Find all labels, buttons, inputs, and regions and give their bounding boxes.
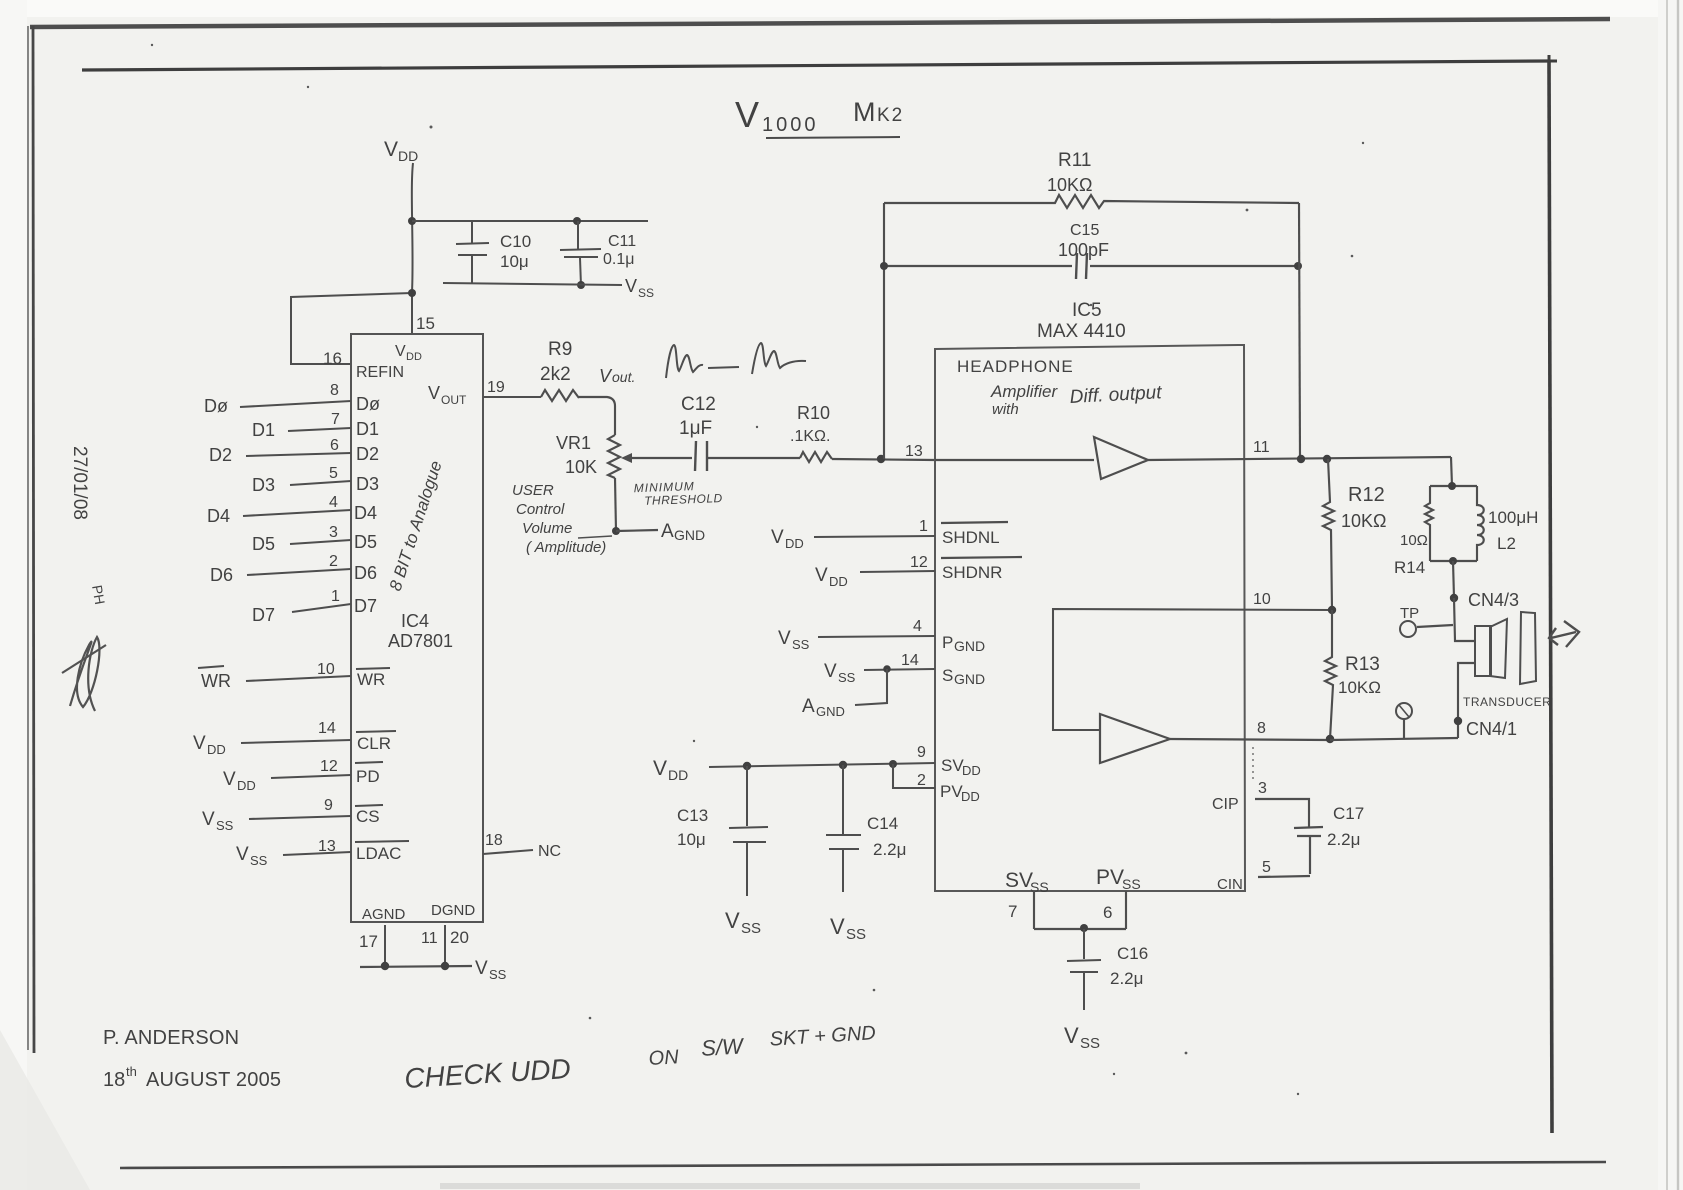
wire VR1 to AGND	[616, 530, 658, 531]
wire VSS rail under caps	[443, 283, 622, 285]
node AGND (pot)	[661, 521, 705, 543]
junction C11 bottom	[577, 281, 585, 289]
svg-text:SS: SS	[1030, 879, 1049, 895]
node VDD to SHDNR	[815, 565, 848, 589]
pin PVSS label	[1096, 866, 1141, 892]
pin 10 label	[317, 661, 335, 678]
label R9	[548, 339, 572, 360]
svg-text:V: V	[653, 757, 667, 780]
svg-text:10KΩ: 10KΩ	[1338, 678, 1381, 697]
svg-text:LDAC: LDAC	[356, 844, 401, 863]
wire AGND pin down	[384, 925, 386, 966]
svg-text:D1: D1	[252, 420, 275, 440]
svg-text:20: 20	[450, 928, 469, 947]
svg-text:TP: TP	[1400, 605, 1419, 622]
svg-text:11: 11	[421, 930, 438, 947]
wire WR	[246, 676, 351, 681]
title V1000 Mk2	[735, 94, 904, 138]
svg-text:D4: D4	[354, 503, 377, 523]
svg-text:WR: WR	[357, 670, 385, 689]
junction LR top	[1448, 482, 1456, 490]
wire D7	[292, 604, 351, 612]
svg-text:S: S	[942, 666, 953, 685]
svg-text:D6: D6	[210, 565, 233, 585]
pin CIP label	[1212, 796, 1239, 813]
wire D1	[288, 428, 351, 431]
pin SVSS label	[1005, 869, 1049, 895]
label TP	[1400, 605, 1419, 622]
junction C16 top	[1080, 924, 1088, 932]
svg-text:P: P	[942, 633, 953, 652]
wire R10 to node 13	[832, 459, 935, 460]
svg-text:15: 15	[416, 314, 435, 333]
pin 13 label	[318, 838, 336, 855]
pin VOUT label inside	[428, 383, 467, 407]
node VSS to CS	[202, 809, 234, 833]
svg-text:9: 9	[917, 744, 926, 761]
svg-text:R13: R13	[1345, 654, 1380, 675]
label 10 ohm R14	[1400, 532, 1428, 549]
svg-text:C12: C12	[681, 394, 716, 415]
wire pin8 rail to CN4/1	[1330, 738, 1458, 740]
svg-text:6: 6	[1103, 903, 1112, 922]
wire PGND	[818, 636, 935, 637]
left margin signature scribble	[62, 637, 106, 711]
svg-text:GND: GND	[674, 527, 705, 543]
svg-text:D7: D7	[252, 605, 275, 625]
svg-text:C13: C13	[677, 806, 708, 825]
svg-text:10KΩ: 10KΩ	[1341, 511, 1386, 531]
svg-text:D7: D7	[354, 596, 377, 616]
wire VR1 bottom	[615, 478, 616, 531]
svg-text:L2: L2	[1497, 534, 1516, 553]
pin D1 label inside	[356, 419, 379, 439]
junction C11 top	[573, 217, 581, 225]
label 10K	[565, 457, 597, 477]
svg-text:SS: SS	[846, 926, 866, 943]
svg-text:V: V	[475, 958, 488, 979]
svg-text:27/01/08: 27/01/08	[69, 446, 90, 520]
svg-text:V: V	[428, 383, 440, 403]
svg-text:NC: NC	[538, 843, 561, 860]
svg-text:SS: SS	[1122, 876, 1141, 892]
pin D7 label inside	[354, 596, 377, 616]
junction C15 left	[880, 262, 888, 270]
label AD7801	[388, 631, 453, 651]
label 2.2u C17	[1327, 830, 1360, 849]
note MINIMUM THRESHOLD	[634, 478, 723, 508]
svg-text:Dø: Dø	[356, 394, 380, 414]
svg-text:R12: R12	[1348, 484, 1385, 506]
node D7 external	[252, 605, 275, 625]
label C17	[1333, 804, 1364, 823]
pin WR label inside	[356, 668, 390, 689]
svg-text:AUGUST 2005: AUGUST 2005	[146, 1069, 281, 1091]
node VDD to CLR	[193, 733, 226, 757]
svg-text:V: V	[824, 661, 837, 682]
svg-text:SS: SS	[638, 286, 654, 300]
svg-text:14: 14	[318, 720, 336, 737]
label R13	[1345, 654, 1380, 675]
pin 8 label	[1257, 720, 1266, 737]
junction C13 top	[743, 762, 751, 770]
svg-text:( Amplitude): ( Amplitude)	[526, 539, 606, 556]
junction REFIN at VDD	[408, 289, 416, 297]
label C10 10u	[500, 232, 531, 271]
svg-text:R9: R9	[548, 339, 572, 360]
capacitor C16	[1067, 929, 1101, 1010]
svg-text:REFIN: REFIN	[356, 364, 404, 381]
svg-text:V: V	[599, 366, 613, 386]
svg-text:V: V	[815, 565, 828, 586]
wire feedback left vertical	[883, 203, 885, 459]
svg-text:9: 9	[324, 797, 333, 814]
svg-text:DD: DD	[962, 763, 981, 778]
rotated note 8 BIT to Analogue	[386, 459, 446, 594]
capacitor C14	[826, 765, 861, 892]
svg-text:100μH: 100μH	[1488, 508, 1538, 527]
wire CN4/3 down to speaker top	[1454, 598, 1475, 641]
svg-text:3: 3	[329, 524, 338, 541]
pin 3 label	[1258, 780, 1267, 797]
wire R9 to VR1 top	[579, 397, 615, 435]
svg-text:5: 5	[1262, 859, 1271, 876]
svg-text:ON: ON	[648, 1046, 680, 1070]
svg-text:SHDNL: SHDNL	[942, 528, 1000, 547]
wire VDD vertical	[412, 163, 413, 334]
wire CIP stub	[1255, 799, 1309, 827]
svg-text:8: 8	[1257, 720, 1266, 737]
svg-text:M: M	[853, 97, 876, 127]
svg-text:R11: R11	[1058, 150, 1091, 171]
pin PD label inside	[355, 762, 383, 786]
pin D3 label inside	[356, 474, 379, 494]
pin 2 label	[917, 772, 926, 789]
svg-text:10K: 10K	[565, 457, 597, 477]
svg-text:Dø: Dø	[204, 396, 228, 416]
transducer baffle panel	[1520, 612, 1536, 684]
pin 15 label	[416, 314, 435, 333]
pin 5 label	[1262, 859, 1271, 876]
wire opamp1 output to pin 11	[1148, 457, 1451, 460]
wire VOUT pin 19	[483, 396, 541, 398]
node D2 external	[209, 445, 232, 465]
pin CIN label	[1217, 876, 1243, 893]
pin 9 label	[324, 797, 333, 814]
svg-text:D3: D3	[252, 475, 275, 495]
op-amp A2 triangle	[1100, 714, 1170, 763]
capacitor C15	[884, 253, 1299, 279]
svg-text:CN4/1: CN4/1	[1466, 719, 1517, 739]
svg-text:S/W: S/W	[700, 1033, 745, 1061]
label C16	[1117, 944, 1148, 963]
node VSS (decoupling)	[625, 276, 654, 300]
node VDD (top supply)	[384, 138, 418, 164]
waveform scribble 2	[752, 343, 806, 374]
svg-text:4: 4	[913, 618, 922, 635]
node VSS to SGND	[824, 661, 856, 685]
svg-text:DGND: DGND	[431, 902, 475, 919]
resistor R9	[541, 390, 579, 401]
left margin rotated date 27/01/08	[69, 446, 108, 606]
svg-text:10: 10	[1253, 591, 1271, 608]
svg-text:1μF: 1μF	[679, 418, 712, 439]
wiper arrow VR1	[621, 453, 692, 463]
node D6 external	[210, 565, 233, 585]
svg-text:V: V	[725, 908, 740, 933]
svg-text:14: 14	[901, 652, 919, 669]
svg-text:V: V	[193, 733, 206, 754]
note P. ANDERSON	[103, 1027, 239, 1049]
wire CIN stub	[1258, 876, 1310, 877]
wire D2	[246, 453, 351, 456]
svg-text:4: 4	[329, 494, 338, 511]
note HEADPHONE Amplifier with Diff. output	[957, 357, 1163, 418]
svg-text:IC5: IC5	[1072, 300, 1102, 321]
label C11 0.1u	[603, 233, 636, 268]
svg-text:C17: C17	[1333, 804, 1364, 823]
pin 9 label	[917, 744, 926, 761]
label VR1	[556, 433, 591, 453]
svg-text:R10: R10	[797, 403, 830, 423]
svg-text:CLR: CLR	[357, 734, 391, 753]
node AGND to SGND	[802, 696, 845, 719]
capacitor C12	[695, 441, 707, 471]
label 10u C13	[677, 830, 706, 849]
wire speaker bottom to CN4/1	[1458, 663, 1475, 738]
pin 7 label	[331, 411, 340, 428]
inductor L2	[1477, 486, 1484, 561]
label R10	[797, 403, 830, 423]
wire CS	[249, 816, 351, 819]
pin D5 label inside	[354, 532, 377, 552]
wire SHDNR	[860, 571, 935, 572]
pin 5 label	[329, 465, 338, 482]
wire VDD rail	[709, 763, 935, 767]
svg-text:V: V	[830, 914, 845, 939]
node CN4/3 label	[1468, 590, 1519, 610]
svg-text:SS: SS	[216, 818, 234, 833]
svg-text:SS: SS	[250, 853, 268, 868]
svg-text:C11: C11	[608, 233, 636, 250]
capacitor C11	[560, 221, 601, 286]
svg-text:HEADPHONE: HEADPHONE	[957, 357, 1074, 376]
pin 16 label	[323, 349, 342, 368]
pin SHDNR label inside	[941, 557, 1022, 582]
pin 14 label	[901, 652, 919, 669]
svg-text:Volume: Volume	[522, 520, 572, 537]
node VSS under C16	[1064, 1023, 1100, 1052]
svg-text:Amplifier: Amplifier	[990, 382, 1058, 401]
label 100pF	[1058, 240, 1109, 260]
pin VDD label inside	[395, 343, 422, 363]
node VDD to SHDNL	[771, 527, 804, 551]
pin 10 line inside	[1053, 609, 1332, 730]
svg-text:AGND: AGND	[362, 906, 406, 923]
svg-text:V: V	[778, 628, 791, 649]
svg-text:16: 16	[323, 349, 342, 368]
svg-text:D5: D5	[354, 532, 377, 552]
label R14	[1394, 558, 1425, 577]
svg-text:CIN: CIN	[1217, 876, 1243, 893]
svg-text:19: 19	[487, 379, 505, 396]
svg-text:SS: SS	[792, 637, 810, 652]
op-amp A1 triangle	[1094, 437, 1148, 479]
pin D6 label inside	[354, 563, 377, 583]
svg-text:IC4: IC4	[401, 611, 429, 631]
label 10K ohm R12	[1341, 511, 1386, 531]
svg-text:DD: DD	[237, 778, 256, 793]
svg-text:V: V	[384, 138, 398, 161]
node VSS under C13	[725, 908, 761, 937]
page left border double line	[28, 26, 34, 1053]
pin 1 label	[919, 518, 928, 535]
resistor R14	[1425, 486, 1433, 561]
resistor R11	[884, 195, 1299, 208]
svg-text:USER: USER	[512, 482, 554, 499]
transducer speaker body	[1475, 626, 1491, 676]
svg-text:V: V	[223, 769, 236, 790]
svg-text:10μ: 10μ	[677, 830, 706, 849]
pin LDAC label inside	[355, 841, 409, 863]
label 10K ohm R11	[1047, 175, 1092, 195]
op-amp IC4 AD7801 box	[351, 334, 483, 922]
svg-text:10Ω: 10Ω	[1400, 532, 1428, 549]
label IC5	[1072, 300, 1102, 321]
junction node 13 feedback	[877, 455, 885, 463]
pin 17 label	[359, 932, 378, 951]
pin CS label inside	[355, 805, 383, 826]
wire NC	[483, 850, 533, 854]
node D0 external	[204, 396, 228, 416]
pin 8 label	[330, 382, 339, 399]
note USER Control Volume (Amplitude)	[512, 482, 612, 556]
svg-text:2.2μ: 2.2μ	[873, 840, 906, 859]
svg-text:17: 17	[359, 932, 378, 951]
wire TP to node	[1417, 625, 1453, 627]
pin D2 label inside	[356, 444, 379, 464]
svg-text:TRANSDUCER: TRANSDUCER	[1463, 695, 1551, 709]
pin 11 label	[1253, 439, 1270, 456]
pin 6 label	[1103, 903, 1112, 922]
op-amp IC5 MAX4410 box	[935, 345, 1245, 891]
svg-text:1: 1	[919, 518, 928, 535]
svg-text:.1KΩ.: .1KΩ.	[790, 428, 830, 445]
label L2	[1497, 534, 1516, 553]
svg-text:V: V	[395, 343, 406, 360]
wire SGND	[864, 669, 935, 670]
svg-text:K2: K2	[877, 105, 904, 126]
svg-text:0.1μ: 0.1μ	[603, 251, 634, 268]
note 18th August 2005	[103, 1064, 281, 1091]
svg-text:6: 6	[330, 437, 339, 454]
node D3 external	[252, 475, 275, 495]
svg-text:C16: C16	[1117, 944, 1148, 963]
wire D5	[290, 540, 351, 544]
pin 6 label	[330, 437, 339, 454]
node VSS to PGND	[778, 628, 810, 652]
svg-text:out.: out.	[612, 369, 635, 385]
svg-text:D2: D2	[209, 445, 232, 465]
svg-text:13: 13	[905, 443, 923, 460]
svg-text:DD: DD	[207, 742, 226, 757]
svg-text:D6: D6	[354, 563, 377, 583]
svg-text:PD: PD	[356, 767, 380, 786]
svg-text:D2: D2	[356, 444, 379, 464]
pin 18 label	[485, 832, 503, 849]
svg-text:10: 10	[317, 661, 335, 678]
svg-text:2: 2	[329, 553, 338, 570]
potentiometer VR1	[608, 435, 620, 478]
svg-text:12: 12	[320, 758, 338, 775]
label 2.2u C14	[873, 840, 906, 859]
waveform scribble 1	[666, 345, 703, 378]
junction AGND rail	[381, 962, 389, 970]
svg-text:R14: R14	[1394, 558, 1425, 577]
node D1 external	[252, 420, 275, 440]
junction C15 right	[1294, 262, 1302, 270]
node NC	[538, 843, 561, 860]
wire AGND up to SGND	[855, 669, 887, 705]
svg-text:D3: D3	[356, 474, 379, 494]
node VDD to PD	[223, 769, 256, 793]
wire pin 7 stub	[1033, 891, 1035, 929]
pin 3 label	[329, 524, 338, 541]
svg-text:2: 2	[917, 772, 926, 789]
pin PVDD label inside	[940, 782, 980, 804]
svg-text:2.2μ: 2.2μ	[1327, 830, 1360, 849]
svg-text:V: V	[771, 527, 784, 548]
label IC4	[401, 611, 429, 631]
svg-text:2k2: 2k2	[540, 364, 571, 385]
node VSS under IC4	[475, 958, 507, 982]
label C12	[681, 394, 716, 415]
scan specks	[151, 44, 1364, 1095]
label C15	[1070, 222, 1099, 239]
svg-text:V: V	[202, 809, 215, 830]
svg-text:DD: DD	[668, 767, 688, 783]
svg-text:with: with	[992, 401, 1019, 418]
junction R12 top	[1323, 455, 1331, 463]
pin 1 label	[331, 588, 340, 605]
sound direction arrow	[1549, 621, 1579, 647]
svg-text:D1: D1	[356, 419, 379, 439]
wire ground rail under IC4	[360, 966, 472, 967]
svg-text:VR1: VR1	[556, 433, 591, 453]
frame corner overshoot	[1548, 55, 1557, 62]
pin CLR label inside	[356, 731, 396, 753]
wire DGND pin down	[444, 925, 446, 966]
junction DGND rail	[441, 962, 449, 970]
resistor R13	[1325, 610, 1336, 739]
svg-text:SS: SS	[489, 967, 507, 982]
svg-text:18: 18	[485, 832, 503, 849]
svg-text:GND: GND	[954, 638, 985, 654]
transducer speaker horn	[1490, 619, 1507, 678]
svg-text:CIP: CIP	[1212, 796, 1239, 813]
junction R12 bottom pin10	[1328, 606, 1336, 614]
pin 4 label	[913, 618, 922, 635]
junction VDD rail	[408, 217, 416, 225]
svg-text:th: th	[126, 1064, 137, 1079]
capacitor C13	[729, 766, 768, 896]
pin 7 label	[1008, 902, 1017, 921]
svg-text:WR: WR	[201, 671, 231, 691]
svg-text:AD7801: AD7801	[388, 631, 453, 651]
capacitor C10	[456, 221, 489, 283]
pin D0 label inside	[356, 394, 380, 414]
junction SGND AGND	[883, 665, 891, 673]
